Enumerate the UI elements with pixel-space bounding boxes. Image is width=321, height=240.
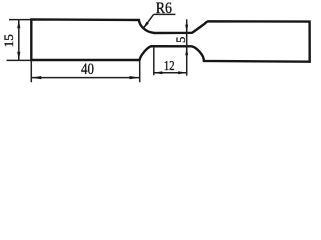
dimension 12: dimension line (154, 72, 187, 74)
dimension 12 / 5: shared right dimension line (186, 19, 188, 75)
dimension 15: dimension line (18, 20, 20, 61)
dimension 40: right extension line (139, 61, 141, 82)
dimension 5: arrowhead up (below gauge bottom edge) (185, 47, 188, 55)
R6 fillet callout: underline (154, 13, 176, 15)
svg-text:15: 15 (2, 34, 16, 47)
dimension 40: arrowhead left (31, 76, 41, 79)
dimension 12: arrowhead left (154, 71, 163, 74)
dimension 40: arrowhead right (130, 76, 140, 79)
specimen outline (dog-bone tensile specimen) (31, 19, 309, 61)
dimension 5: value label (174, 37, 188, 43)
dimension 15: top extension line (9, 19, 31, 21)
dimension 15: value label (2, 34, 16, 47)
dimension 12: left extension line (153, 48, 155, 76)
dimension 12: arrowhead right (178, 71, 187, 74)
svg-text:12: 12 (164, 58, 175, 73)
dimension 5: arrowhead down (above gauge top edge) (185, 25, 188, 33)
dimension 15: arrowhead up (17, 20, 20, 29)
dimension 40: left extension line (30, 61, 32, 83)
R6 fillet callout: leader arrowhead (143, 22, 149, 29)
svg-text:5: 5 (174, 37, 188, 43)
R6 fillet callout: leader line (144, 14, 154, 27)
svg-text:40: 40 (81, 61, 94, 78)
dimension 40: dimension line (31, 77, 139, 79)
dimension 15: bottom extension line (7, 59, 32, 61)
dimension 15: arrowhead down (17, 52, 20, 61)
